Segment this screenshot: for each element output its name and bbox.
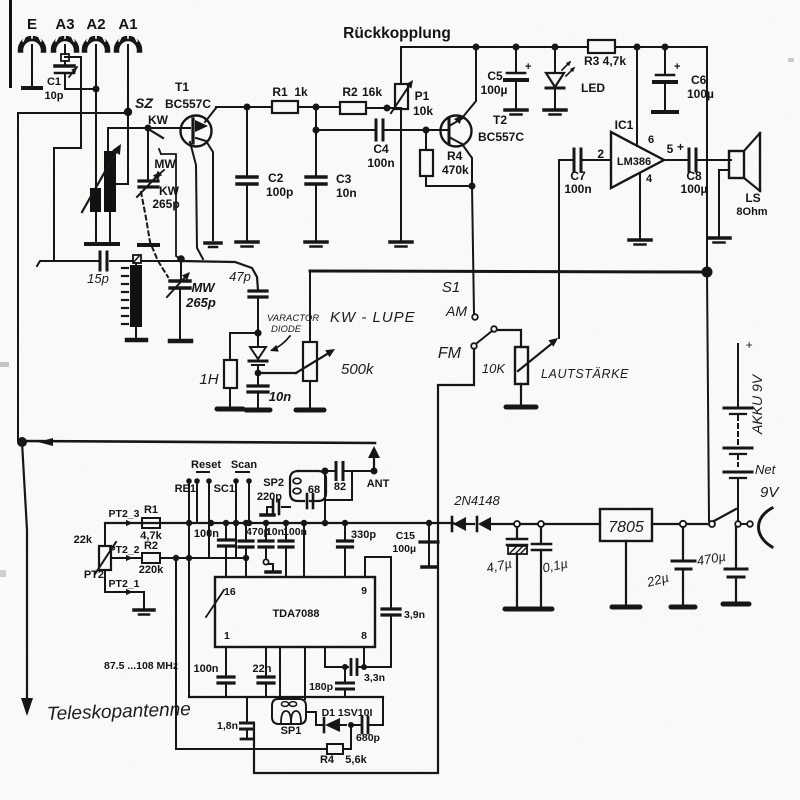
ground P1: [390, 240, 412, 244]
svg-text:C3: C3: [336, 172, 352, 186]
capacitor C15: [428, 523, 430, 541]
wiper 10K: [518, 341, 555, 371]
svg-text:+: +: [674, 61, 680, 73]
capacitor C5: [515, 47, 517, 71]
wire T1 base: [148, 127, 190, 129]
wire mid rail: [310, 271, 706, 272]
socket E: [21, 39, 44, 51]
wire pin4 ground: [639, 174, 641, 238]
ground T1: [205, 241, 221, 245]
svg-text:FM: FM: [438, 345, 462, 362]
tuning arrow: [82, 147, 119, 212]
svg-text:SZ: SZ: [135, 95, 153, 111]
svg-text:R4: R4: [320, 754, 335, 766]
capacitor 100n c: [225, 647, 227, 676]
ground PT2_1: [134, 608, 154, 612]
svg-text:SC1: SC1: [214, 483, 235, 495]
svg-text:BC557C: BC557C: [165, 97, 211, 111]
svg-text:A3: A3: [55, 16, 74, 33]
svg-text:10K: 10K: [482, 361, 506, 376]
ground 47u: [505, 607, 529, 612]
wire tick: [38, 438, 53, 446]
capacitor C4: [316, 129, 374, 131]
wire ANT to 82: [345, 470, 374, 472]
ground 10n b: [266, 570, 280, 574]
LED: [554, 47, 556, 72]
coil SP1: [279, 647, 281, 699]
svg-text:Scan: Scan: [231, 459, 258, 471]
op-amp IC1 LM386: [611, 132, 664, 188]
svg-text:S1: S1: [442, 279, 460, 296]
svg-text:R1: R1: [272, 85, 288, 99]
resistor R1: [272, 101, 298, 113]
socket A2: [85, 39, 108, 51]
ground C2: [236, 240, 258, 244]
svg-text:LED: LED: [581, 81, 605, 95]
junction MW: [177, 255, 185, 263]
switch power: [709, 521, 715, 527]
svg-text:DIODE: DIODE: [271, 324, 302, 335]
capacitor 0.1u: [540, 527, 542, 543]
wire T1 collector right: [196, 138, 213, 240]
svg-text:PT2_3: PT2_3: [109, 508, 140, 520]
svg-text:R2: R2: [144, 540, 158, 552]
svg-text:D1 1SV10I: D1 1SV10I: [322, 707, 373, 719]
wire A3 branch: [65, 57, 81, 148]
svg-text:A1: A1: [118, 16, 137, 33]
diode D2: [451, 517, 454, 531]
wire A2 down: [95, 52, 97, 189]
svg-text:T2: T2: [493, 113, 507, 127]
svg-text:10n: 10n: [336, 186, 357, 200]
wire rail to S1 area: [707, 272, 709, 521]
resistor R2 220k: [142, 553, 160, 563]
svg-text:P1: P1: [415, 89, 430, 103]
wire L3 ground: [135, 263, 137, 265]
svg-text:82: 82: [334, 481, 346, 493]
svg-text:R1: R1: [144, 504, 158, 516]
wire varactor junction: [257, 366, 259, 385]
wire S1 to pot: [497, 330, 521, 347]
svg-text:Rückkopplung: Rückkopplung: [343, 25, 451, 42]
capacitor 22n: [265, 647, 267, 676]
wire 667 row: [325, 647, 348, 667]
wire RE1 long: [188, 481, 190, 697]
capacitor 15p: [99, 252, 102, 270]
svg-text:100n: 100n: [194, 528, 219, 540]
varactor diode D: [250, 347, 266, 359]
ground LED: [544, 108, 566, 112]
inductor 1H: [230, 333, 258, 360]
svg-text:+: +: [677, 140, 684, 154]
ground 220p: [261, 513, 274, 517]
IC TDA7088: [215, 577, 375, 647]
ground 470u: [723, 602, 749, 607]
svg-text:47p: 47p: [229, 269, 251, 284]
svg-text:100n: 100n: [564, 182, 591, 196]
svg-text:C15: C15: [396, 530, 415, 542]
wire coil L1 to ground: [109, 212, 111, 242]
ground KW cap: [139, 243, 158, 247]
wire pin6: [636, 47, 638, 146]
svg-text:10k: 10k: [413, 104, 433, 118]
svg-text:1,8n: 1,8n: [217, 720, 238, 732]
regulator 7805: [600, 509, 652, 541]
ground LS: [708, 236, 730, 240]
ground C5: [505, 108, 527, 112]
teleskop arrow: [21, 698, 33, 716]
svg-text:R2: R2: [342, 85, 358, 99]
svg-text:Reset: Reset: [191, 459, 221, 471]
coil L3 (lower ferrite): [130, 265, 142, 327]
capacitor 330p: [344, 523, 346, 540]
mechanical link dashed: [141, 192, 168, 277]
svg-text:2N4148: 2N4148: [453, 493, 500, 508]
wire SP2 to rail: [324, 501, 326, 523]
wire KW cap: [147, 128, 149, 180]
svg-text:6: 6: [648, 134, 654, 146]
wire RE1b: [208, 481, 210, 558]
svg-text:220k: 220k: [139, 564, 164, 576]
svg-text:68: 68: [308, 484, 320, 496]
capacitor 470p: [245, 523, 247, 540]
wire T1 left leg: [190, 142, 203, 259]
ground 7805: [612, 605, 640, 610]
wire T2 emitter: [462, 47, 476, 118]
capacitor 22u: [682, 527, 684, 560]
svg-text:9V: 9V: [760, 484, 780, 501]
scan edge artifact: [9, 0, 12, 88]
svg-text:1H: 1H: [199, 371, 218, 388]
wire bottom rail: [253, 723, 438, 773]
svg-text:BC557C: BC557C: [478, 130, 524, 144]
svg-text:87.5 ...108 MHz: 87.5 ...108 MHz: [104, 660, 178, 672]
svg-text:T1: T1: [175, 80, 189, 94]
teleskop vertical: [22, 442, 27, 698]
capacitor C1: [64, 61, 66, 64]
wire A1 to coil: [116, 113, 128, 184]
switch S2 lever: [150, 130, 163, 138]
svg-text:LAUTSTÄRKE: LAUTSTÄRKE: [541, 367, 629, 381]
wire KW frame: [161, 154, 180, 259]
svg-text:265p: 265p: [152, 197, 179, 211]
ground 1H: [217, 407, 243, 412]
wire T2 collector: [462, 144, 472, 186]
ground MW cap: [170, 339, 191, 344]
coil L3 hatch: [122, 268, 128, 324]
svg-text:100n: 100n: [367, 156, 394, 170]
capacitor C6: [664, 47, 666, 73]
wire left col A3b: [54, 147, 81, 149]
wire to MW cap: [180, 261, 182, 280]
svg-text:10n: 10n: [266, 526, 284, 538]
capacitor 470u: [735, 527, 737, 568]
wire T2 collector to AM: [472, 186, 474, 314]
capacitor 47u: [516, 527, 518, 538]
ground 0.1u: [530, 607, 552, 612]
ground 500k: [296, 408, 324, 413]
wire caps rail: [105, 522, 453, 524]
wire C1 to A2 line: [65, 74, 96, 89]
ANT arrow: [373, 452, 375, 470]
capacitor C3: [315, 107, 317, 176]
svg-text:+: +: [745, 338, 752, 352]
wire to 47p: [181, 261, 258, 290]
wire FM down: [438, 349, 474, 772]
svg-text:100n: 100n: [193, 663, 218, 675]
svg-text:4: 4: [646, 173, 653, 185]
wire diodes to 7805: [514, 521, 520, 527]
svg-text:PT2_1: PT2_1: [109, 578, 140, 590]
svg-text:C8: C8: [686, 169, 702, 183]
connector 9V plug: [759, 508, 773, 547]
wire right rail: [706, 47, 708, 271]
svg-text:16: 16: [224, 586, 236, 598]
capacitor C8: [664, 159, 687, 161]
wire coil L2 ground: [95, 212, 97, 242]
wire R1-R2: [298, 106, 340, 108]
wire pin8: [363, 647, 365, 667]
capacitor C2: [244, 104, 251, 111]
svg-text:Net: Net: [755, 462, 777, 477]
svg-text:KW - LUPE: KW - LUPE: [330, 309, 416, 326]
svg-text:SP1: SP1: [281, 725, 302, 737]
svg-text:22k: 22k: [74, 534, 93, 546]
scan smudge 1: [0, 362, 9, 367]
wire pin9 loop: [365, 557, 391, 608]
svg-text:22n: 22n: [253, 663, 272, 675]
capacitor 680p: [351, 724, 360, 726]
capacitor 47p: [249, 289, 267, 292]
resistor R3: [588, 40, 615, 53]
wire 82 bypass: [326, 471, 352, 500]
svg-text:8: 8: [361, 630, 367, 642]
svg-text:KW: KW: [159, 184, 180, 198]
ground E: [23, 86, 41, 90]
battery AKKU 9V: [737, 344, 739, 407]
svg-text:470k: 470k: [442, 163, 469, 177]
varactor pointer arrow: [272, 336, 290, 350]
svg-text:MW: MW: [154, 157, 176, 171]
svg-text:680p: 680p: [356, 732, 380, 744]
svg-text:5: 5: [667, 142, 674, 156]
capacitor 3.9n: [382, 607, 400, 610]
contact A3: [64, 52, 66, 54]
capacitor 82: [335, 463, 338, 480]
small arrow MW switch: [156, 170, 164, 177]
wire C7 down: [558, 160, 560, 338]
capacitor C7: [559, 159, 572, 161]
capacitor 3.3n: [350, 660, 353, 675]
wire R2 to P1: [366, 107, 401, 109]
wire top-left rail: [18, 113, 128, 441]
svg-text:C1: C1: [47, 76, 61, 88]
wire 15p row: [37, 261, 54, 266]
wire telescopic antenna rail: [22, 441, 375, 443]
svg-text:C7: C7: [570, 169, 586, 183]
capacitor 180p: [344, 667, 346, 682]
diode D3: [476, 517, 479, 531]
wiper arrow 500k: [296, 351, 332, 373]
ground C6: [653, 110, 677, 114]
svg-text:PT2: PT2: [84, 569, 104, 581]
wire PT2 top: [104, 523, 106, 546]
potentiometer 10K: [515, 347, 528, 384]
resistor R1 4.7k: [105, 522, 142, 524]
svg-text:E: E: [27, 16, 37, 33]
wire wiper: [258, 372, 296, 374]
capacitor 1.8n: [175, 558, 177, 749]
wire E to ground: [31, 52, 33, 86]
svg-text:100µ: 100µ: [481, 83, 508, 97]
svg-text:+: +: [525, 61, 531, 73]
ground L3: [127, 338, 146, 343]
svg-text:9: 9: [361, 585, 367, 597]
contact box: [133, 255, 141, 263]
wire coil top stub: [107, 128, 109, 151]
socket A1: [117, 39, 140, 51]
svg-text:330p: 330p: [351, 529, 376, 541]
ground C3: [305, 240, 327, 244]
svg-text:LM386: LM386: [617, 156, 651, 168]
wire T1 emitter: [205, 107, 272, 122]
svg-text:10n: 10n: [269, 389, 291, 404]
capacitor 10n b: [265, 523, 267, 540]
svg-text:C2: C2: [268, 171, 284, 185]
svg-text:1k: 1k: [294, 85, 308, 99]
coil L1 (ferrite rod): [104, 151, 116, 212]
svg-text:180p: 180p: [309, 681, 333, 693]
svg-text:500k: 500k: [341, 361, 375, 378]
ground 10n: [246, 408, 270, 413]
capacitor 100n a: [225, 523, 227, 539]
wire 47p down: [257, 298, 259, 332]
wire KW: [108, 127, 148, 129]
wire gnd bus: [189, 696, 383, 698]
potentiometer PT2 22k: [99, 546, 111, 570]
svg-text:KW: KW: [148, 113, 169, 127]
svg-text:5,6k: 5,6k: [345, 754, 367, 766]
ground pin4: [629, 238, 651, 242]
svg-text:ANT: ANT: [367, 478, 390, 490]
socket A3: [54, 39, 77, 51]
svg-text:16k: 16k: [362, 85, 382, 99]
svg-text:AKKU 9V: AKKU 9V: [749, 373, 765, 435]
wire A1 down: [127, 52, 129, 111]
svg-text:C5: C5: [487, 69, 503, 83]
svg-text:2: 2: [597, 147, 604, 161]
switch S1: [472, 314, 478, 320]
capacitor 220p: [282, 506, 290, 508]
wire LS ground: [719, 170, 729, 236]
diode D1 1SV101: [306, 712, 323, 725]
svg-text:3,3n: 3,3n: [364, 672, 385, 684]
wire PT2 bottom: [105, 570, 144, 608]
scan smudge 2: [0, 570, 6, 577]
svg-text:MW: MW: [191, 280, 216, 295]
capacitor 68: [306, 494, 309, 508]
capacitor 10n varactor: [248, 384, 268, 387]
resistor R4 5.6k: [350, 725, 352, 749]
transistor T1: [181, 116, 212, 147]
svg-text:C6: C6: [691, 73, 707, 87]
svg-text:100µ: 100µ: [392, 543, 416, 555]
svg-text:100µ: 100µ: [687, 87, 714, 101]
wire top rail: [401, 46, 588, 48]
svg-text:3,9n: 3,9n: [404, 609, 425, 621]
svg-text:100µ: 100µ: [681, 182, 708, 196]
resistor R4: [425, 130, 427, 150]
capacitor MW 265p: [170, 279, 190, 282]
ground coil L2: [86, 242, 102, 246]
svg-text:A2: A2: [86, 16, 105, 33]
speaker LS: [729, 151, 744, 178]
svg-text:220p: 220p: [257, 491, 282, 503]
resistor R2: [340, 102, 366, 114]
svg-text:265p: 265p: [185, 295, 216, 310]
coil SP2: [298, 471, 326, 501]
svg-text:10p: 10p: [45, 90, 64, 102]
svg-text:15p: 15p: [87, 271, 109, 286]
wire 7805 out: [652, 523, 709, 525]
svg-text:R3 4,7k: R3 4,7k: [584, 54, 626, 68]
svg-text:SP2: SP2: [263, 477, 284, 489]
svg-text:LS: LS: [745, 191, 760, 205]
svg-text:1: 1: [224, 630, 230, 642]
wire 7805 ground: [625, 541, 627, 604]
svg-text:TDA7088: TDA7088: [272, 608, 319, 620]
svg-text:IC1: IC1: [615, 118, 634, 132]
transistor T2: [441, 116, 472, 147]
coil L2: [90, 188, 101, 212]
scan smudge 3: [788, 58, 794, 62]
capacitor KW 265p: [139, 179, 158, 182]
ground 10K: [506, 405, 536, 410]
potentiometer P1: [400, 47, 402, 84]
pin16 slash: [206, 590, 224, 617]
wire pin col: [303, 523, 305, 577]
wire rail to diodes: [453, 523, 455, 524]
wire SC1: [235, 481, 237, 558]
svg-text:7805: 7805: [608, 519, 644, 536]
potentiometer 500k: [309, 271, 311, 342]
wire PT2 wiper: [111, 557, 142, 559]
wire MW cap ground: [179, 289, 181, 339]
ground coil L1: [102, 242, 118, 246]
svg-text:PT2_2: PT2_2: [109, 544, 140, 556]
capacitor 100n b: [285, 523, 287, 540]
svg-text:C4: C4: [373, 142, 389, 156]
svg-text:8Ohm: 8Ohm: [736, 206, 767, 218]
ground 22u: [671, 605, 695, 610]
svg-text:100p: 100p: [266, 185, 293, 199]
svg-text:AM: AM: [445, 303, 467, 319]
svg-text:VARACTOR: VARACTOR: [267, 313, 319, 324]
svg-text:RE1: RE1: [175, 483, 196, 495]
svg-text:R4: R4: [447, 149, 463, 163]
